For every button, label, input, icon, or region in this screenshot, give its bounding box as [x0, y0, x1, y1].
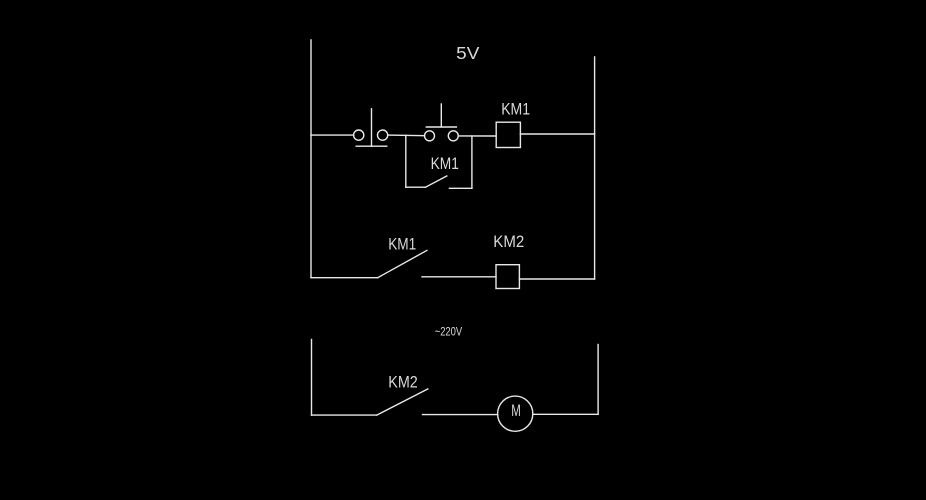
- motor M: [498, 396, 533, 431]
- wire rung3 from left rail: [312, 414, 377, 416]
- wire from start button to coil KM1: [458, 135, 496, 137]
- wire rung2 to coil KM2: [422, 276, 496, 278]
- svg-text:KM2: KM2: [493, 232, 524, 251]
- wire rung2 from left rail: [311, 277, 378, 279]
- power rail left (motor circuit): [311, 340, 313, 416]
- contact KM1 auxiliary self-holding (NO): [406, 135, 472, 188]
- svg-text:KM2: KM2: [388, 372, 418, 391]
- pushbutton SB1 stop (NC): [354, 109, 388, 146]
- power rail right (control circuit): [594, 57, 596, 279]
- wire from coil KM1 to right rail: [520, 133, 594, 135]
- svg-text:5V: 5V: [456, 43, 480, 63]
- power rail right (motor circuit): [597, 345, 599, 415]
- contact KM2 (NO) blade: [377, 389, 428, 415]
- wire motor to right rail: [533, 413, 598, 415]
- contact KM1 (NO) rung2 blade: [378, 250, 427, 277]
- svg-text:~220V: ~220V: [435, 326, 463, 338]
- wire rung3 to motor: [423, 414, 498, 416]
- svg-text:M: M: [511, 401, 521, 420]
- wire between stop and start buttons: [388, 134, 425, 137]
- coil KM1: [496, 122, 520, 147]
- pushbutton SB2 start (NO): [425, 104, 459, 141]
- wire rung1 from left rail to stop button: [311, 134, 354, 136]
- power rail left (control circuit): [310, 40, 312, 278]
- svg-text:KM1: KM1: [431, 154, 459, 173]
- coil KM2: [496, 265, 519, 289]
- svg-text:KM1: KM1: [501, 100, 530, 119]
- svg-text:KM1: KM1: [388, 235, 416, 254]
- wire from coil KM2 to right rail: [519, 278, 594, 280]
